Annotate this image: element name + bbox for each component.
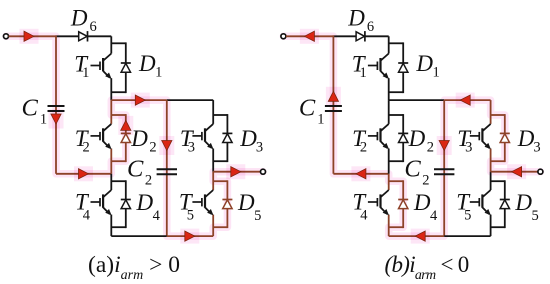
diode D2 (b) (398, 133, 408, 142)
label T3 (457, 126, 472, 156)
capacitor C2 wire (b) (443, 100, 445, 236)
wire input to C1 node (9, 35, 57, 37)
label D5 (237, 190, 261, 224)
diode D4 branch wires (b) (389, 180, 404, 228)
diode D6 (a) (79, 31, 88, 41)
current-path halo (a) (6, 36, 263, 236)
diode D5 (b) (500, 200, 510, 209)
label T5 (456, 190, 471, 224)
current arrow through D2 (118, 116, 133, 135)
current arrow bottom rail (411, 229, 430, 244)
IGBT T5 (b) (470, 190, 491, 215)
capacitor C1 plates (b) (325, 106, 342, 111)
label T1 (74, 52, 89, 82)
capacitor C1 wire (b) (333, 35, 388, 173)
IGBT T1 leg wire (a) (110, 36, 112, 100)
diode D3 branch wires (a) (213, 114, 227, 162)
IGBT T1 (b) (368, 54, 389, 80)
label T5 (179, 190, 194, 224)
label D3 (239, 126, 263, 156)
wire output (213, 171, 260, 173)
diode D6 (b) (356, 31, 365, 41)
current arrow C2 down (159, 136, 174, 155)
IGBT T2 (a) (91, 124, 112, 149)
input terminal (b) (281, 34, 286, 39)
IGBT T1 (a) (91, 54, 112, 80)
wire node-A rail red (444, 99, 490, 101)
diode D3 (a) (222, 133, 232, 142)
diode D4 (b) (398, 200, 408, 209)
capacitor C2 wire (a) (166, 100, 168, 236)
output terminal (b) (538, 169, 543, 174)
IGBT T2 leg wire (a) (110, 100, 112, 174)
current arrow node-A rail (131, 93, 150, 108)
label C2 (404, 156, 429, 189)
wire top rail left of D6 (333, 35, 356, 37)
diode D2 branch wires (a) (111, 114, 126, 162)
IGBT T3 (b) (470, 124, 491, 149)
current arrow input (20, 29, 39, 44)
IGBT T1 leg wire (b) (388, 36, 390, 100)
current arrow output (226, 164, 245, 179)
current arrow output (507, 164, 526, 179)
capacitor C2 plates (b) (434, 169, 454, 174)
diode D4 branch wires (a) (111, 180, 126, 228)
label D6 (347, 5, 374, 35)
wire node-A rail black (389, 99, 445, 101)
wire node-A rail black (167, 99, 213, 101)
label T2 (75, 126, 90, 156)
capacitor C2 plates (a) (157, 169, 177, 174)
label D4 (413, 190, 438, 224)
diode D1 branch wires (b) (389, 42, 404, 93)
label D5 (514, 190, 538, 224)
IGBT T2 (b) (368, 124, 389, 149)
IGBT T5 leg wire (b) (490, 172, 492, 236)
label T3 (180, 126, 195, 156)
label T4 (352, 190, 368, 224)
capacitor C1 wire (a) (56, 35, 111, 173)
caption (a) i_arm > 0 (88, 252, 180, 283)
IGBT T4 leg wire (b) (388, 174, 390, 236)
diode D3 (b) (500, 133, 510, 142)
label D4 (136, 190, 161, 224)
label D2 (408, 126, 434, 156)
label D1 (138, 51, 162, 81)
diode D5 branch wires (b) (491, 180, 505, 228)
IGBT T3 leg wire (a) (212, 100, 214, 172)
wire top rail right of D6 (88, 35, 112, 37)
IGBT T3 leg wire (b) (490, 100, 492, 172)
IGBT T4 (b) (368, 190, 389, 215)
wire node-A rail red (111, 99, 167, 101)
label C1 (22, 95, 48, 128)
diode D3 branch wires (b) (491, 114, 505, 162)
label D1 (415, 51, 439, 81)
label T2 (352, 126, 367, 156)
current arrow bottom rail (180, 229, 199, 244)
input terminal (a) (4, 34, 9, 39)
caption (b) i_arm < 0 (385, 252, 469, 283)
wire top rail left of D6 (56, 35, 79, 37)
wire top rail right of D6 (365, 35, 389, 37)
IGBT T5 leg wire (a) (212, 172, 214, 236)
wire bottom rail red (389, 235, 445, 237)
wire bottom rail black (444, 235, 490, 237)
diode D1 (a) (121, 63, 131, 72)
current-path halo (b) (283, 36, 540, 236)
current arrow node-A rail (456, 93, 475, 108)
current arrow C1 down (49, 110, 64, 129)
current arrow mid-left rail (351, 166, 370, 181)
current arrow C1 up (326, 87, 341, 106)
wire bottom rail red (167, 235, 213, 237)
capacitor C1 plates (a) (48, 106, 65, 111)
label T1 (352, 52, 367, 82)
diode D5 (a) (222, 200, 232, 209)
diode D5 branch wires (a) (213, 180, 227, 228)
IGBT T4 leg wire (a) (110, 174, 112, 236)
output terminal (a) (261, 169, 266, 174)
current arrow input (300, 29, 319, 44)
label D6 (70, 5, 97, 35)
diode D2 branch wires (b) (389, 114, 404, 162)
label D2 (130, 126, 156, 156)
label C1 (299, 95, 325, 128)
wire input to C1 node (286, 35, 334, 37)
wire output (491, 171, 538, 173)
wire bottom rail black (111, 235, 167, 237)
diode D2 (a) (121, 133, 131, 142)
label T4 (75, 190, 91, 224)
diode D4 (a) (121, 200, 131, 209)
diode D1 branch wires (a) (111, 42, 126, 93)
current arrow mid-left rail (74, 166, 93, 181)
label D3 (517, 126, 541, 156)
IGBT T4 (a) (91, 190, 112, 215)
label C2 (127, 156, 152, 189)
current arrow C2 down (437, 136, 452, 155)
diode D1 (b) (398, 63, 408, 72)
IGBT T3 (a) (192, 124, 213, 149)
IGBT T5 (a) (192, 190, 213, 215)
IGBT T2 leg wire (b) (388, 100, 390, 174)
